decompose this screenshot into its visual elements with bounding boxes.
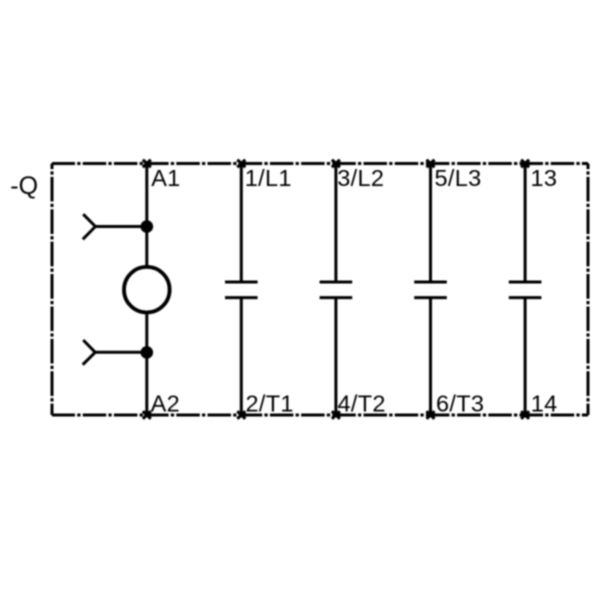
svg-text:-Q: -Q <box>10 172 38 200</box>
junction dot upper (coil branch) <box>141 220 154 233</box>
terminal cross mark 14 <box>521 411 529 419</box>
svg-text:A2: A2 <box>151 390 180 416</box>
fork terminal upper (wire stub with fork) <box>83 214 147 239</box>
svg-text:A1: A1 <box>151 165 180 191</box>
svg-text:2/T1: 2/T1 <box>246 390 294 416</box>
enclosure border bottom (dash-dot) <box>52 414 588 417</box>
terminal cross mark 1/L1 <box>237 160 245 168</box>
terminal cross mark 13 <box>521 160 529 168</box>
coil -Q (operating coil circle) <box>124 267 170 313</box>
main contact pole 2 (3/L2 - 4/T2) <box>320 164 353 416</box>
svg-text:3/L2: 3/L2 <box>337 165 384 191</box>
enclosure border top (dash-dot) <box>52 162 588 165</box>
terminal cross mark 3/L2 <box>332 160 340 168</box>
terminal cross mark 5/L3 <box>427 160 435 168</box>
wire A1 terminal to coil <box>145 164 148 266</box>
main contact pole 1 (1/L1 - 2/T1) <box>225 164 258 416</box>
terminal cross mark 6/T3 <box>427 411 435 419</box>
fork terminal lower (wire stub with fork) <box>83 340 147 365</box>
svg-text:6/T3: 6/T3 <box>436 390 484 416</box>
terminal cross mark 2/T1 <box>237 411 245 419</box>
junction dot lower (coil branch) <box>141 346 154 359</box>
svg-text:14: 14 <box>531 390 558 416</box>
enclosure border left (dash-dot) <box>51 164 54 416</box>
terminal cross mark A2 <box>143 411 151 419</box>
terminal cross mark 4/T2 <box>332 411 340 419</box>
svg-text:1/L1: 1/L1 <box>245 165 292 191</box>
wire coil to A2 terminal <box>145 314 148 415</box>
main contact pole 3 (5/L3 - 6/T3) <box>414 164 447 416</box>
terminal cross mark A1 <box>143 160 151 168</box>
svg-text:5/L3: 5/L3 <box>435 165 482 191</box>
svg-text:4/T2: 4/T2 <box>338 390 386 416</box>
enclosure border right (dash-dot) <box>587 164 590 416</box>
svg-text:13: 13 <box>531 165 558 191</box>
auxiliary contact (13 - 14) <box>509 164 542 416</box>
